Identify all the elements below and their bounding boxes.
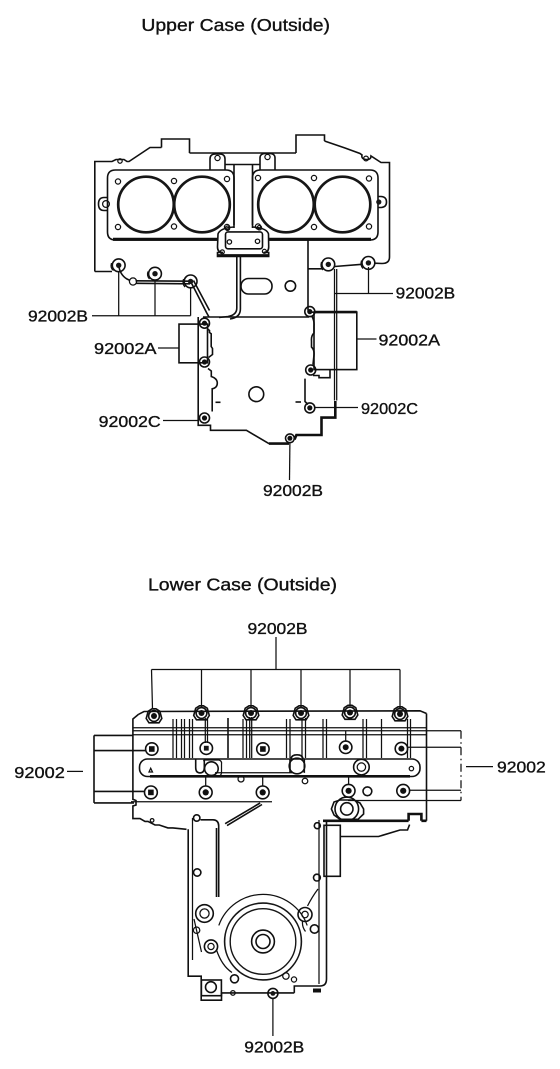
row3 bolt 5 [397, 784, 410, 797]
lower section right inner contour [305, 317, 330, 405]
lower case top edge [139, 711, 427, 715]
bolt K 92002C right [305, 403, 315, 413]
oil rib diagonal [225, 803, 262, 826]
title lower [148, 575, 337, 595]
leader 92002B left [92, 272, 191, 316]
bolt D 92002B [321, 258, 335, 271]
top right ear hole [364, 156, 369, 161]
rail triangle hole [149, 768, 153, 772]
leader 92002 right [466, 766, 493, 768]
cylinder bore 2 [174, 177, 230, 233]
cam tunnel flange [218, 227, 269, 257]
bracket 92002A left [179, 324, 208, 363]
big boss hex lower [331, 800, 363, 819]
sump circle right [310, 925, 318, 933]
upper case top hole left [118, 159, 122, 163]
row2 bolt 1 [146, 743, 158, 755]
label 92002B left [28, 308, 88, 325]
svg-text:Lower Case (Outside): Lower Case (Outside) [148, 575, 337, 595]
rail U notch [196, 760, 205, 773]
leader 92002A right [357, 338, 377, 340]
svg-text:92002B: 92002B [244, 1039, 304, 1056]
svg-text:92002C: 92002C [361, 401, 418, 418]
label 92002A right [379, 332, 441, 349]
bolt L bottom 92002B [286, 434, 295, 443]
gasket stud holes bottom row [115, 224, 371, 230]
row2 bolt 4 [340, 731, 352, 754]
cylinder ribs [173, 717, 411, 758]
ear boss 1 [210, 154, 225, 170]
label 92002B bottom [263, 483, 323, 500]
gasket stud holes top row [115, 175, 371, 184]
leader 92002 left [67, 770, 83, 772]
sump bottom edge [221, 992, 294, 994]
top row bolt hex flats [146, 705, 408, 723]
row3 small hole [363, 787, 372, 796]
top row bolt 5 [345, 707, 356, 718]
big boss circles [335, 797, 359, 821]
svg-text:Upper Case (Outside): Upper Case (Outside) [141, 15, 330, 35]
sump boss left ring [204, 940, 217, 953]
bracket 92002A right [314, 312, 357, 370]
upper case breather tower 1 [162, 139, 190, 153]
upper case outer outline right [325, 141, 390, 264]
bolt H 92002C left [200, 413, 210, 423]
bolt G 92002A left bottom [200, 357, 210, 367]
label 92002B lower-bottom [244, 1039, 304, 1056]
row3 bolt 3 [256, 786, 269, 799]
bolt I 92002A right top [305, 307, 315, 317]
crankcase rail [140, 759, 421, 777]
row3 bolt 1 [145, 786, 158, 799]
svg-text:92002A: 92002A [94, 341, 157, 358]
lower section top edge [203, 312, 314, 317]
sump left inner line [192, 818, 194, 960]
lower section bottom right outline [269, 401, 335, 444]
top row bolt 4 [296, 708, 307, 719]
sump right outer edge [294, 821, 326, 993]
upper case outer outline left [95, 148, 162, 272]
svg-text:92002B: 92002B [263, 483, 323, 500]
horizontal rails [133, 728, 461, 735]
lower section left outer edge [198, 317, 285, 444]
row3 bolt 2 [199, 786, 212, 799]
label 92002B right [396, 286, 456, 303]
starter cover rect [324, 825, 340, 876]
rail small circle below [238, 776, 244, 782]
tunnel lower duct [219, 257, 240, 319]
rail small hole [409, 766, 413, 770]
svg-text:92002: 92002 [497, 759, 546, 776]
right leader box 92002 [348, 731, 461, 801]
label 92002A left [94, 341, 157, 358]
bolt F 92002A left top [200, 318, 210, 328]
row3 bolt 4 [342, 784, 355, 797]
svg-text:92002A: 92002A [379, 332, 441, 349]
sump inner top [201, 820, 219, 897]
upper case top mid line [190, 152, 297, 154]
sump left outer edge [188, 829, 221, 1000]
sump boss right [298, 908, 312, 922]
gasket line lower [131, 801, 272, 803]
sump bottom tiny ring [231, 991, 236, 996]
right mid case edge [308, 240, 322, 311]
upper case breather tower 2 [296, 135, 325, 153]
leader 92002B lower-bottom [272, 999, 274, 1037]
bolt D-E link [335, 264, 362, 266]
bolt E 92002B [361, 257, 375, 270]
label 92002 right [497, 759, 546, 776]
bottom bolt 92002B lower [268, 988, 278, 998]
rail boss circle [204, 760, 222, 776]
wide case bottom right edge [323, 814, 427, 821]
bolt C 92002B [183, 275, 197, 288]
bolt J 92002A right bottom [306, 365, 316, 375]
small hole right mid [285, 281, 295, 291]
svg-text:92002C: 92002C [99, 414, 161, 431]
wire diagonal from bolt C [191, 281, 210, 318]
sump wall arc [219, 894, 307, 925]
row2 bolt 5 [395, 742, 407, 754]
oil pump cover inner [230, 909, 296, 975]
leader 92002B right [335, 267, 394, 401]
tunnel side pill [241, 279, 272, 295]
label 92002 left [14, 765, 65, 782]
oil pump hub [252, 930, 275, 953]
title upper [141, 15, 330, 35]
wire bolt A to C [119, 265, 191, 285]
bracket line 92002B lower [152, 670, 401, 710]
leader 92002B lower-top [275, 637, 277, 670]
left plate 92002 [94, 735, 146, 803]
interior tick left [216, 401, 221, 403]
interior tick right [296, 401, 302, 403]
rail drop lines [206, 777, 349, 786]
lower section left inner contour [208, 329, 218, 426]
sump right inner line [318, 820, 320, 984]
bolt B 92002B [148, 267, 162, 280]
sump wall details [194, 889, 318, 973]
gasket bottom thick edge [113, 238, 371, 241]
gasket left ear [99, 198, 110, 211]
svg-text:92002B: 92002B [396, 286, 456, 303]
sump boss left hex [196, 905, 214, 923]
top row bolt 6 [395, 709, 406, 720]
label 92002C left [99, 414, 161, 431]
cylinder bore 1 [118, 177, 174, 233]
lower case right edge [426, 714, 428, 821]
label 92002C right [361, 401, 418, 418]
svg-text:92002B: 92002B [248, 621, 308, 638]
bolt A 92002B [111, 259, 125, 272]
top row bolt 3 [246, 708, 257, 719]
gasket right ear [376, 197, 386, 208]
cylinder bore 4 [315, 177, 371, 233]
top row bolt 2 [196, 708, 207, 719]
leader 92002C left [163, 420, 198, 422]
interior hole [249, 387, 264, 402]
top row bolt 1 [149, 711, 160, 722]
sump bottom boss [201, 980, 221, 996]
label 92002B lower-top [248, 621, 308, 638]
leader 92002C right [315, 407, 358, 409]
sump edge rings [150, 815, 320, 934]
svg-text:92002B: 92002B [28, 308, 88, 325]
sump flange right [340, 825, 409, 837]
ear boss 2 [260, 154, 275, 171]
cam chain tunnel slot [225, 164, 260, 225]
rail carb boss [289, 755, 308, 784]
row2 bolt 2 [200, 742, 212, 754]
leader 92002B bottom [289, 443, 291, 481]
oil pump cover outer [225, 903, 302, 980]
head gasket outline [108, 170, 379, 240]
rail boss 2 [354, 759, 370, 775]
lower case left edge [133, 714, 187, 829]
cam tunnel flange holes [220, 226, 266, 254]
cylinder bore 3 [258, 177, 314, 233]
left mid case edge [95, 271, 112, 273]
svg-text:92002: 92002 [14, 765, 65, 782]
sump bottom small circles [231, 973, 297, 983]
sump bottom right tab [313, 989, 321, 993]
leader 92002A left [158, 347, 179, 349]
row2 bolt 3 [257, 743, 269, 755]
